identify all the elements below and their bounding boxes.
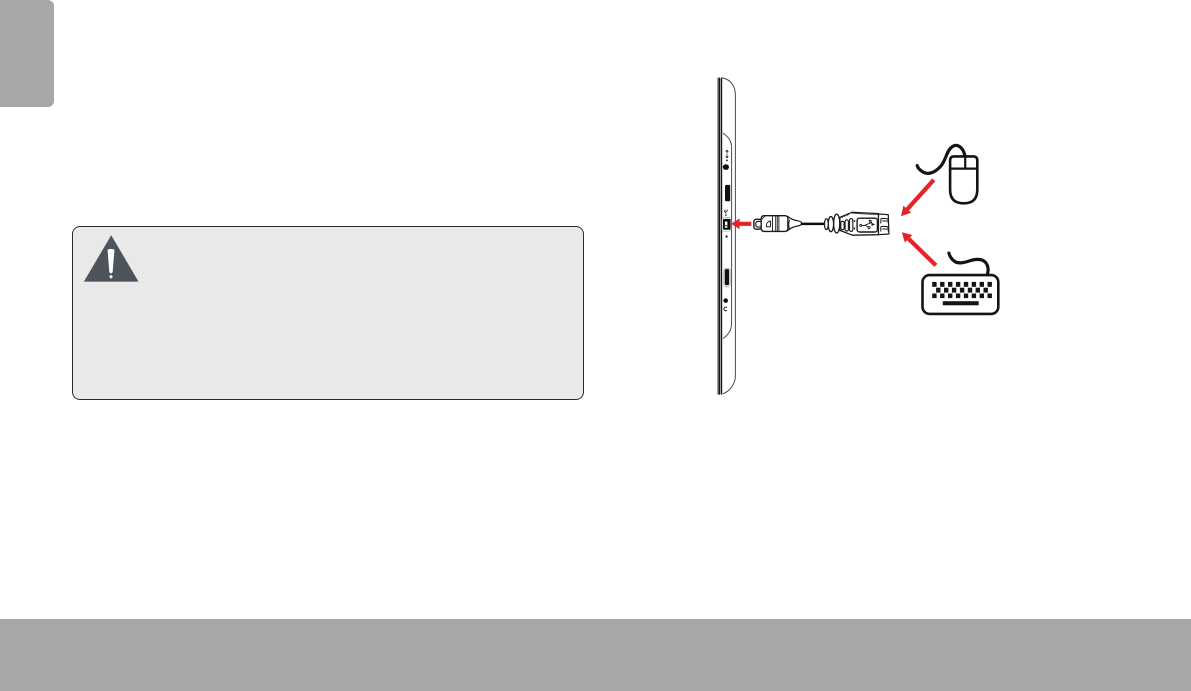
usb port recess <box>722 218 731 232</box>
mini-usb plug body <box>761 216 789 232</box>
mini-usb plug nose <box>788 216 802 230</box>
warning note box <box>72 226 584 400</box>
usb symbol label <box>724 210 728 217</box>
colon dots <box>854 220 856 229</box>
usb trident logo <box>860 220 875 228</box>
keyboard cable <box>949 253 988 275</box>
mini-usb emblem <box>766 221 770 227</box>
power port <box>723 164 729 170</box>
port marker triangle <box>726 235 729 238</box>
usb port <box>723 219 731 230</box>
red arrow to usb port <box>731 219 751 230</box>
usb-a connector body <box>840 212 879 235</box>
C label <box>724 307 727 311</box>
connector metal end <box>879 214 889 235</box>
plug ridge lines <box>773 216 779 231</box>
hdmi slot recess <box>724 268 730 287</box>
keyboard body <box>923 275 999 314</box>
tablet back profile outline <box>722 78 735 394</box>
warning triangle icon <box>80 231 144 285</box>
volume rocker marking <box>726 150 728 161</box>
usb cable <box>802 223 826 226</box>
connector ridge slots <box>841 219 853 232</box>
top-left gray tab <box>0 0 54 107</box>
tablet edge strip <box>717 78 722 395</box>
card slot <box>725 185 730 201</box>
tablet side face inner line <box>723 133 731 338</box>
mini-usb plug tip <box>754 219 762 229</box>
red arrow from keyboard <box>902 232 938 267</box>
hdmi slot <box>725 269 729 285</box>
usb logo plate <box>857 218 877 232</box>
mouse cable <box>917 145 965 173</box>
keyboard spacebar <box>943 301 979 305</box>
red arrow from mouse <box>901 178 935 216</box>
mouse body <box>950 156 977 203</box>
bottom gray bar <box>0 619 1191 691</box>
strain relief rings <box>825 214 840 233</box>
keyboard keys checkerboard <box>932 282 992 298</box>
illustration canvas <box>690 60 1020 430</box>
microphone hole <box>723 298 728 303</box>
